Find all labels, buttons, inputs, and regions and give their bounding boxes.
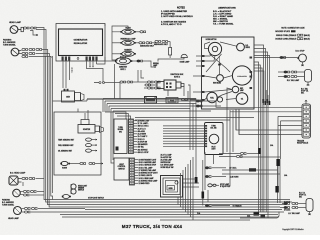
wire right cross (222, 144, 287, 177)
connector bottom center (205, 204, 242, 207)
svg-text:23 B.O. D: 23 B.O. D (138, 139, 146, 141)
component stop light switch (62, 195, 71, 199)
wire ammeter right (131, 60, 156, 68)
lamp b.o. drive (237, 43, 250, 51)
terminal generator regulator right pins (86, 57, 98, 61)
label BAT wire (72, 68, 73, 74)
label trailer receptacle (297, 140, 309, 145)
label parking b.o. marker turn signal (bottom) (2, 199, 14, 207)
svg-text:TURN SIGNAL: TURN SIGNAL (3, 44, 16, 47)
connector near fuse (181, 98, 202, 107)
component resistor cylinder (169, 45, 172, 59)
label l.h. tail lamp (288, 212, 300, 215)
svg-text:(MALE): (MALE) (304, 34, 310, 37)
label fuel sending unit (58, 145, 73, 147)
svg-text:HORN: HORN (62, 168, 68, 170)
svg-text:NOTES: NOTES (177, 8, 185, 10)
label horn button (206, 39, 217, 41)
lamp head lamp (top left) (10, 26, 23, 34)
splice blob right C (276, 159, 279, 166)
enclosure instrument cluster (202, 37, 255, 109)
lamp b.o. head lamp (9, 176, 22, 185)
wire bottom harness bundle (56, 200, 292, 221)
svg-text:LIGHT: LIGHT (119, 164, 124, 166)
wire bottom left links (23, 182, 44, 195)
connector head lamp feeds (bottom) (24, 207, 87, 213)
component r.h. tail lamp (305, 70, 312, 86)
connector dimmer feed (120, 81, 160, 83)
svg-text:490 B.O. STOP: 490 B.O. STOP (138, 152, 149, 154)
wire left harness bundle vertical (44, 56, 53, 190)
wire bottom right bend (240, 212, 279, 219)
label dimmer switch (78, 185, 87, 192)
box turn signal switch (114, 119, 127, 154)
wire marker column down (112, 55, 118, 60)
wire parking lamp right (134, 42, 156, 44)
component horn (lower) (60, 161, 103, 169)
svg-text:B: B (72, 68, 73, 70)
svg-text:10 INSTRUMENT LIGHT: 10 INSTRUMENT LIGHT (139, 160, 157, 162)
label marker (124, 49, 132, 52)
wire dimmer vertical (138, 70, 144, 82)
wire regulator to generator (63, 61, 70, 89)
enclosure generator regulator outer box (56, 24, 105, 62)
svg-text:TEMP. SENDING UNIT: TEMP. SENDING UNIT (58, 139, 74, 141)
label conn 21-B (284, 201, 290, 211)
svg-text:T.S. = TURN SIGNAL: T.S. = TURN SIGNAL (213, 23, 234, 26)
label abbreviations heading (218, 7, 236, 10)
svg-text:2. NOT USED ON ALL MODELS: 2. NOT USED ON ALL MODELS (161, 15, 193, 18)
svg-text:R.H. T.S.: R.H. T.S. (299, 193, 306, 195)
svg-text:FUEL: FUEL (210, 97, 214, 99)
wire main feed (87, 98, 196, 100)
box generator regulator (59, 29, 103, 56)
svg-text:NOTE 3: NOTE 3 (174, 76, 180, 78)
component l.h. tail lamp (306, 199, 313, 216)
wire relay feeds (183, 179, 200, 187)
svg-text:PILOT: PILOT (211, 147, 215, 149)
connector l.h. tail feeds (280, 202, 306, 208)
terminal strip upper (128, 119, 133, 154)
label parking lamp (120, 38, 135, 41)
svg-text:SIG.: SIG. (301, 93, 305, 95)
connector below (144, 87, 160, 89)
svg-text:21-B T.S. B: 21-B T.S. B (138, 128, 146, 130)
component marker lamp (120, 51, 136, 56)
wire corner bundle bends (103, 99, 114, 164)
wire left bend to bundle (77, 109, 79, 113)
svg-text:R.H. TAIL LAMP: R.H. TAIL LAMP (287, 79, 300, 82)
wire ignition downs (188, 91, 196, 179)
svg-text:LIGHT: LIGHT (211, 148, 215, 150)
wire trailer bundle vertical (278, 116, 281, 186)
wire right bundle B (254, 62, 268, 218)
splice blob right E (249, 168, 256, 171)
wire main feed left (53, 99, 88, 101)
label signal lamp (153, 62, 159, 67)
label stack horn relay area (161, 153, 174, 169)
svg-text:18 SERVICE STOP LIGHT: 18 SERVICE STOP LIGHT (139, 173, 158, 175)
svg-text:TURN: TURN (211, 125, 215, 127)
wire dome lamp split (158, 58, 184, 62)
label r.h. tail detail (301, 88, 309, 95)
wire feeds to pilot box (163, 126, 205, 146)
component temp sender (86, 138, 97, 141)
label parking b.o. marker turn signal (top left) (3, 39, 16, 47)
svg-text:SIG. SW.: SIG. SW. (210, 127, 217, 129)
box turn signal pilot (205, 123, 224, 155)
component fuse box (166, 98, 178, 104)
arrow above receptacle (305, 100, 308, 104)
wire right bundle A blobs (263, 99, 271, 105)
wire corner bundle horizontals (103, 99, 221, 112)
connector parking/turn feeds (22, 48, 42, 54)
connector head lamp feed (23, 27, 36, 29)
component fuel sender (86, 144, 97, 147)
label ambulance only (140, 44, 154, 47)
connector r.h. tail feeds (278, 71, 305, 78)
gauge oil-amp (236, 93, 248, 105)
connector starter switch (94, 82, 120, 84)
svg-text:(MALE): (MALE) (304, 37, 310, 40)
wire staircase bends (178, 157, 193, 220)
label b.o. head lamp (10, 172, 26, 175)
svg-text:461 SERVICE: 461 SERVICE (138, 149, 148, 151)
terminal cluster left edge (202, 55, 205, 101)
wire strip top feeds (105, 112, 131, 119)
svg-text:HORN BUTTON: HORN BUTTON (206, 39, 217, 41)
svg-text:SPEEDOMETER: SPEEDOMETER (237, 76, 247, 78)
svg-text:19 B.O. SERVICE STOP: 19 B.O. SERVICE STOP (139, 165, 157, 167)
label oil sending unit (58, 150, 72, 152)
svg-text:SWITCH: SWITCH (78, 189, 84, 191)
lamp marker (bottom) (13, 189, 23, 197)
splice blob pilot (258, 148, 261, 154)
component dome lamp (181, 54, 187, 57)
svg-text:NOTE: CONNECTOR CODE: NOTE: CONNECTOR CODE (281, 27, 305, 29)
svg-text:STOP T.S.: STOP T.S. (299, 194, 307, 196)
lamp instrument 1 (232, 86, 244, 93)
svg-text:24 STOP SW: 24 STOP SW (138, 141, 148, 143)
connector accessory 2 (205, 175, 239, 178)
wire parking/turn to harness (22, 50, 51, 59)
wire cluster down (227, 109, 239, 186)
wire trailer feeds (216, 101, 302, 135)
label copyright (282, 228, 304, 231)
component circuit breaker (145, 97, 157, 104)
svg-text:RECEPTACLE: RECEPTACLE (297, 142, 309, 145)
wire labels lower rows (135, 160, 158, 186)
svg-text:STOP LIGHT SWITCH: STOP LIGHT SWITCH (88, 197, 104, 199)
svg-text:IF EQUIPPED: IF EQUIPPED (220, 186, 231, 188)
enclosure engine compartment (54, 112, 101, 175)
wire bottom harness left bends (44, 190, 62, 207)
label ignition switch (170, 74, 184, 79)
wire steering cross (206, 54, 230, 72)
component generator (62, 89, 85, 102)
wire upper row right (219, 152, 258, 157)
wire head lamp to harness (30, 28, 46, 57)
gauge fuel (207, 92, 223, 102)
gauge horn button (208, 42, 221, 55)
wire cluster internals (205, 42, 237, 109)
lamp parking/turn (top left) (11, 48, 21, 56)
splice blob center (195, 177, 198, 184)
connector accessory 1 (205, 167, 237, 170)
wire ammeter drop (114, 64, 116, 99)
legend molded splice (275, 30, 295, 33)
svg-text:OIL: OIL (241, 98, 243, 100)
svg-text:CONTROL: CONTROL (118, 166, 126, 168)
svg-text:Copyright 1997 D.B.Mueller: Copyright 1997 D.B.Mueller (282, 228, 304, 231)
svg-text:NOTE 1: NOTE 1 (120, 69, 125, 71)
label b.o. stop (296, 51, 306, 53)
connector marker feeds (23, 190, 44, 196)
component parking lamp (120, 40, 136, 45)
svg-text:DRIVE: DRIVE (246, 47, 250, 49)
svg-text:SINGLE CONN. (FEMALE: SINGLE CONN. (FEMALE (276, 34, 297, 37)
label head lamp (top left) (9, 21, 22, 24)
svg-text:DIMMER: DIMMER (78, 187, 85, 189)
component oil sender (86, 149, 97, 152)
wire marker column left (112, 32, 122, 55)
label abbreviations text (213, 10, 234, 26)
svg-text:22 HORN + SW: 22 HORN + SW (138, 121, 150, 123)
label head lamp (bottom) (8, 217, 20, 220)
svg-text:22-B HORN: 22-B HORN (230, 176, 239, 178)
wire ammeter left (105, 60, 115, 62)
terminal regulator center pin (77, 58, 79, 60)
svg-text:HEAD LAMP: HEAD LAMP (9, 21, 22, 24)
wire center verticals (203, 152, 214, 206)
svg-text:HORN: HORN (168, 188, 172, 190)
wire regulator top to horn (112, 26, 128, 32)
svg-text:DOUBLE CONN. (FEMALE: DOUBLE CONN. (FEMALE (275, 37, 297, 40)
svg-text:IGNITION SW: IGNITION SW (161, 162, 171, 164)
connector b.o. head feeds (22, 177, 44, 179)
wire starter cap (85, 110, 88, 120)
label dome lamp (180, 60, 190, 63)
label stop light switch (88, 197, 104, 199)
svg-text:B.O. STOP: B.O. STOP (296, 51, 306, 53)
label notes text (161, 10, 193, 26)
svg-text:SWITCH: SWITCH (118, 168, 125, 170)
component ignition switch (145, 80, 184, 90)
wire regulator right pins down (87, 61, 104, 83)
svg-text:ABBREVIATIONS: ABBREVIATIONS (218, 7, 236, 10)
wire cluster left stubs (190, 56, 202, 100)
svg-text:HEAD LAMP: HEAD LAMP (8, 217, 20, 220)
svg-text:OIL SENDING UNIT: OIL SENDING UNIT (58, 150, 72, 152)
label connector code note (281, 27, 305, 29)
legend single conn (276, 34, 310, 37)
svg-text:FUEL SENDING UNIT: FUEL SENDING UNIT (58, 145, 73, 147)
svg-text:TURN SIGNAL: TURN SIGNAL (2, 203, 14, 206)
component horn relay (161, 176, 183, 198)
label r.h. tail lamp (287, 79, 300, 82)
lamp head lamp (bottom) (14, 207, 25, 215)
splice blob bundle B bottom (254, 212, 266, 218)
terminal cluster right edge (250, 57, 253, 90)
svg-text:STOP T.S.: STOP T.S. (301, 91, 309, 93)
gauge speedometer (232, 66, 251, 85)
label horn (125, 27, 131, 29)
label ambulance only 2 (154, 43, 168, 46)
terminal generator regulator left pins (62, 57, 71, 61)
wire right bundle C (278, 159, 281, 203)
terminal strip lower (129, 158, 134, 185)
wire mid horizontals right (135, 118, 254, 121)
lamp b.o. stop (297, 54, 306, 66)
splice blob center2 (202, 192, 205, 199)
svg-text:REGULATOR: REGULATOR (74, 42, 88, 45)
label l.h. tail detail (299, 193, 307, 199)
lamp high beam (213, 75, 223, 85)
component trailer receptacle (302, 104, 311, 138)
label temp sending unit (58, 139, 74, 141)
wire horn right (134, 31, 145, 33)
component horn (120, 29, 136, 34)
box light control switch (114, 158, 129, 180)
connector spot lamp (208, 184, 219, 187)
wire starter sw drop (119, 83, 121, 100)
svg-text:T: T (72, 72, 73, 74)
wire right bundle A (254, 45, 270, 105)
wire regulator to ammeter (97, 24, 106, 64)
svg-text:B.O. HEAD LAMP: B.O. HEAD LAMP (10, 172, 26, 175)
component starter (78, 120, 104, 134)
label title (122, 224, 183, 229)
svg-text:MOLDED SPLICE: MOLDED SPLICE (275, 31, 290, 33)
component dimmer switch (71, 184, 76, 194)
wire b.o. stop feed (254, 56, 297, 58)
connector ambulance feed (155, 40, 170, 44)
component ammeter (115, 56, 132, 71)
legend double conn (275, 37, 310, 40)
splice blob right D (275, 186, 278, 193)
label spot lamp (220, 183, 231, 188)
label notes heading (177, 8, 185, 10)
svg-text:A TO B, AND C TO D: A TO B, AND C TO D (161, 23, 182, 26)
svg-text:GENERATOR: GENERATOR (74, 39, 88, 42)
svg-text:M37 TRUCK, 3/4 TON 4X4: M37 TRUCK, 3/4 TON 4X4 (122, 224, 183, 229)
wire ignition terminals down (168, 85, 190, 96)
wire labels upper rows (134, 121, 150, 154)
